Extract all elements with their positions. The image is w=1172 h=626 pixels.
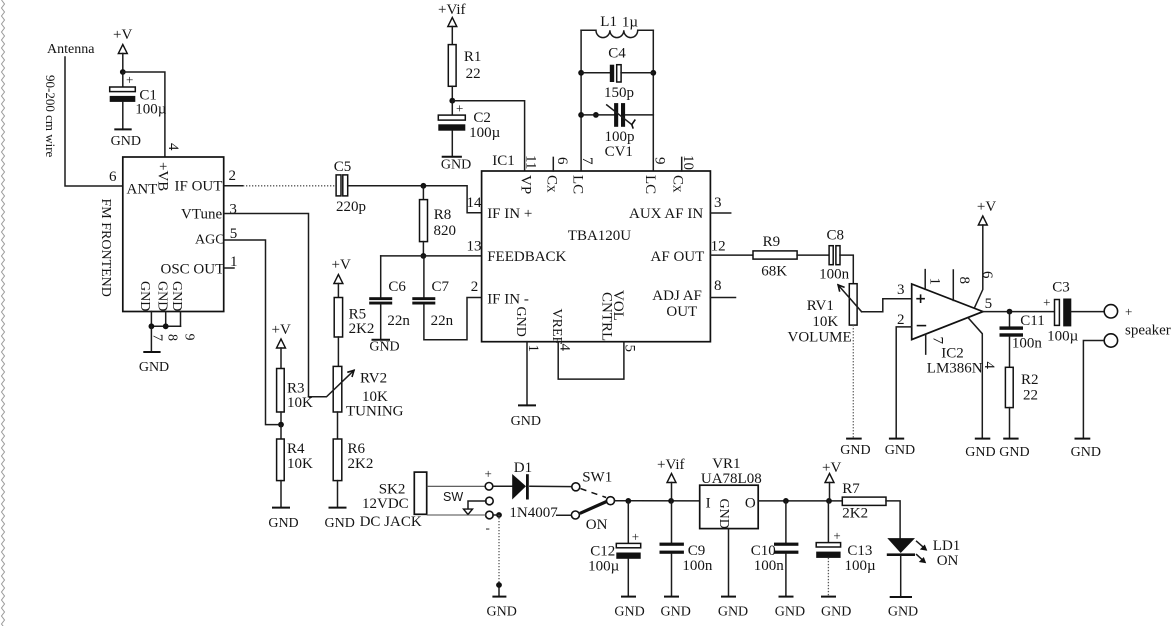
wire junction to +VB pin (123, 72, 165, 157)
svg-text:2K2: 2K2 (348, 456, 374, 472)
svg-text:6: 6 (979, 271, 995, 279)
pin 8 stub (710, 297, 735, 299)
SW contact arrow (464, 509, 473, 514)
svg-text:12: 12 (711, 239, 726, 255)
svg-text:C3: C3 (1052, 280, 1070, 296)
svg-text:UA78L08: UA78L08 (701, 471, 762, 487)
switch SW1 (557, 470, 615, 534)
svg-text:+: + (456, 101, 463, 116)
svg-text:C12: C12 (590, 544, 615, 560)
svg-text:+V: +V (272, 322, 291, 338)
svg-text:4: 4 (556, 344, 572, 352)
svg-text:VREF: VREF (549, 309, 564, 345)
capacitor C7 22n (412, 279, 453, 329)
svg-text:13: 13 (467, 239, 482, 255)
svg-text:GND: GND (661, 605, 691, 620)
jack terminal plus (485, 483, 493, 491)
svg-text:GND: GND (716, 499, 731, 529)
svg-text:ANT: ANT (127, 182, 158, 198)
capacitor C3 100u (1043, 280, 1079, 345)
IC FM FRONTEND module (98, 157, 225, 312)
svg-text:6: 6 (109, 169, 117, 185)
svg-text:2: 2 (229, 168, 237, 184)
svg-text:RV2: RV2 (360, 371, 387, 387)
svg-text:LM386N: LM386N (927, 361, 983, 377)
wire RV1 wiper to pin 3 (862, 299, 912, 312)
jack terminal minus (486, 511, 494, 519)
ground (R6) (325, 481, 355, 531)
ground (SK2) (487, 597, 517, 620)
wire VTune to RV2 wiper (224, 214, 309, 397)
wire tank right (652, 30, 654, 171)
capacitor C4 150p (581, 46, 653, 102)
svg-text:1N4007: 1N4007 (509, 505, 558, 521)
svg-text:100µ: 100µ (135, 102, 167, 118)
svg-text:IF IN +: IF IN + (487, 206, 532, 222)
ground (C1) (111, 129, 141, 149)
wire C7 to IF IN- pin (424, 298, 482, 340)
svg-text:IF IN -: IF IN - (487, 292, 529, 308)
wire RV1 bottom to ground (852, 325, 854, 439)
svg-text:LC: LC (642, 175, 658, 194)
capacitor C11 100n (1000, 312, 1045, 352)
capacitor C12 100u (588, 501, 641, 575)
svg-text:8: 8 (956, 277, 972, 285)
svg-text:+V: +V (332, 257, 351, 273)
svg-text:+: + (1043, 295, 1050, 310)
wire pin 2 to ground (896, 327, 912, 439)
svg-text:CNTRL: CNTRL (599, 292, 615, 341)
wire speaker return (1083, 341, 1104, 439)
resistor R5 2K2 (334, 298, 374, 338)
wire C11 to R2 (1009, 337, 1011, 368)
node C4 right (650, 70, 656, 76)
svg-text:VOLUME: VOLUME (788, 330, 852, 346)
svg-text:GND: GND (154, 281, 169, 311)
svg-text:+V: +V (113, 27, 132, 43)
resistor R8 820 (420, 186, 457, 256)
svg-text:R2: R2 (1021, 372, 1039, 388)
svg-text:AF OUT: AF OUT (651, 249, 705, 265)
svg-text:10K: 10K (812, 314, 838, 330)
potentiometer RV2 10K TUNING (309, 366, 404, 419)
node +V / C13 (826, 498, 832, 504)
node ground stem (496, 582, 502, 588)
pin 1 stub (924, 270, 926, 290)
svg-text:+: + (1125, 304, 1132, 319)
svg-text:+: + (632, 529, 639, 544)
svg-text:AGC: AGC (195, 233, 225, 248)
svg-text:8: 8 (164, 334, 179, 341)
node +V/C1 junction (120, 69, 126, 75)
wire C3 to speaker (1071, 311, 1104, 313)
svg-text:2K2: 2K2 (842, 506, 868, 522)
node jack minus (496, 512, 502, 518)
svg-text:5: 5 (622, 345, 638, 353)
capacitor C9 100n (660, 501, 713, 574)
svg-text:GND: GND (511, 414, 541, 429)
svg-text:4: 4 (981, 362, 997, 370)
wire minus to ground (493, 514, 499, 516)
capacitor C5 220p (334, 159, 366, 215)
svg-text:7: 7 (579, 157, 595, 165)
svg-text:3: 3 (229, 202, 237, 218)
wire SW contact (468, 501, 486, 509)
svg-text:OSC OUT: OSC OUT (161, 262, 225, 278)
svg-text:100n: 100n (1012, 336, 1043, 352)
resistor R9 68K (753, 234, 797, 280)
svg-text:2K2: 2K2 (349, 321, 375, 337)
svg-text:GND: GND (369, 340, 399, 355)
svg-text:+: + (485, 466, 492, 481)
svg-text:C4: C4 (608, 46, 626, 62)
pin 8 stub (952, 270, 954, 300)
trimmer capacitor CV1 100p (581, 103, 653, 160)
capacitor C13 100u (816, 501, 876, 574)
svg-text:+: + (126, 72, 133, 87)
pin 1 GND wire (526, 342, 528, 406)
svg-text:R6: R6 (348, 441, 366, 457)
svg-text:11: 11 (523, 155, 539, 169)
capacitor C1 100u (110, 72, 167, 129)
wire jack minus (427, 514, 486, 516)
svg-text:GND: GND (139, 360, 169, 375)
ground (C12) (614, 559, 644, 620)
svg-text:GND: GND (487, 605, 517, 620)
svg-text:GND: GND (718, 605, 748, 620)
wire R3 to junction (280, 412, 282, 425)
svg-text:Cx: Cx (669, 175, 685, 193)
svg-text:+V: +V (822, 460, 841, 476)
svg-text:2: 2 (897, 312, 905, 328)
ground (LD1) (888, 556, 918, 620)
svg-text:3: 3 (897, 282, 905, 298)
svg-text:RV1: RV1 (807, 298, 834, 314)
node R3/R4 junction (278, 422, 284, 428)
svg-text:LC: LC (569, 175, 585, 194)
svg-text:CV1: CV1 (605, 144, 633, 160)
page edge hatch strip (2, 0, 5, 626)
inductor L1 1u (581, 14, 653, 38)
ground (RV1) (840, 439, 870, 458)
power flag +V (R5) (332, 257, 351, 298)
svg-text:100µ: 100µ (845, 558, 877, 574)
svg-text:TBA120U: TBA120U (568, 228, 632, 244)
svg-text:R9: R9 (763, 234, 781, 250)
svg-text:100n: 100n (754, 558, 785, 574)
wire feedback to C6 (380, 256, 382, 297)
ground (IC1 pin1) (511, 405, 541, 429)
resistor R4 10K (277, 425, 313, 481)
svg-text:GND: GND (137, 281, 152, 311)
svg-text:-: - (486, 520, 490, 535)
svg-text:GND: GND (111, 134, 141, 149)
svg-text:C11: C11 (1020, 313, 1044, 329)
power flag +Vif (R1) (438, 2, 466, 45)
svg-text:R7: R7 (842, 481, 860, 497)
svg-text:8: 8 (714, 278, 722, 294)
svg-text:R8: R8 (434, 207, 452, 223)
wire C5 to pin14 elbow (348, 186, 482, 213)
svg-text:9: 9 (182, 334, 197, 341)
wire jack plus (427, 485, 485, 487)
svg-text:C13: C13 (847, 543, 872, 559)
svg-text:90-200 cm wire: 90-200 cm wire (43, 75, 58, 158)
wire feedback line (381, 255, 482, 257)
svg-text:SW1: SW1 (582, 470, 612, 486)
svg-text:FEEDBACK: FEEDBACK (487, 249, 566, 265)
wire tank left (580, 30, 582, 171)
svg-text:GND: GND (325, 516, 355, 531)
diode D1 1N4007 (493, 460, 572, 521)
svg-text:R4: R4 (287, 441, 305, 457)
svg-text:IC2: IC2 (941, 346, 964, 362)
svg-text:Cx: Cx (543, 175, 559, 193)
speaker terminal + (1104, 305, 1117, 318)
svg-text:ADJ AF: ADJ AF (652, 288, 702, 304)
ground (C10) (775, 554, 805, 620)
resistor R1 22 (448, 45, 481, 87)
svg-text:220p: 220p (336, 199, 366, 215)
svg-text:2: 2 (471, 279, 479, 295)
ground (IC2 pin 4) (965, 439, 995, 460)
svg-text:GND: GND (840, 443, 870, 458)
wire RV2 to R6 (337, 412, 339, 439)
node R8 bottom / feedback (421, 253, 427, 259)
node C4 left (578, 70, 584, 76)
svg-text:C6: C6 (388, 279, 406, 295)
svg-text:VTune: VTune (181, 207, 222, 223)
wire AF OUT to R9 (710, 254, 753, 256)
resistor R2 22 (1005, 367, 1038, 407)
jack switch terminal (486, 497, 494, 505)
svg-text:C10: C10 (751, 543, 776, 559)
ground (VR1) (718, 597, 748, 620)
ground (IC2 pin 2) (885, 439, 915, 458)
svg-text:7: 7 (929, 337, 945, 345)
svg-text:22: 22 (466, 66, 481, 82)
wire VR1 out rail (758, 500, 842, 502)
capacitor C10 100n (751, 501, 799, 574)
power flag +V (R3) (272, 322, 291, 369)
svg-text:SW: SW (443, 490, 463, 504)
svg-text:22n: 22n (431, 313, 454, 329)
wire switch to rail (615, 500, 700, 502)
svg-text:speaker: speaker (1125, 323, 1171, 339)
ground (C9) (661, 554, 691, 620)
svg-text:IF OUT: IF OUT (175, 179, 223, 195)
capacitor C8 100n (819, 228, 850, 283)
regulator VR1 UA78L08 (700, 456, 762, 529)
node +Vif / C9 (668, 498, 674, 504)
svg-text:1µ: 1µ (622, 15, 639, 31)
svg-text:C8: C8 (827, 228, 845, 244)
svg-text:C7: C7 (432, 279, 450, 295)
svg-text:820: 820 (434, 223, 457, 239)
node C10 (783, 498, 789, 504)
svg-text:150p: 150p (604, 85, 634, 101)
ground (R4) (268, 481, 298, 531)
wire C8 to RV1 top (840, 255, 853, 284)
LED LD1 (887, 538, 961, 569)
power flag +V (C1) (113, 27, 132, 72)
svg-text:GND: GND (821, 605, 851, 620)
pin 10 stub (681, 157, 683, 171)
svg-text:22n: 22n (387, 313, 410, 329)
svg-text:OUT: OUT (666, 304, 697, 320)
svg-text:GND: GND (268, 516, 298, 531)
svg-text:GND: GND (999, 445, 1029, 460)
node R1/C2 (449, 98, 455, 104)
op-amp IC2 LM386N (912, 284, 983, 377)
svg-text:100n: 100n (819, 267, 850, 283)
wire antenna to ANT pin (65, 57, 123, 186)
wire IF OUT to C5 (224, 185, 243, 187)
wire OSC OUT stub (224, 267, 234, 269)
svg-text:ON: ON (937, 553, 959, 569)
ground (C6) (369, 305, 399, 355)
svg-text:100µ: 100µ (469, 125, 501, 141)
resistor R3 10K (277, 369, 313, 413)
svg-text:9: 9 (652, 157, 668, 165)
svg-text:TUNING: TUNING (346, 404, 404, 420)
wire VR1 gnd pin (728, 529, 730, 597)
svg-text:IC1: IC1 (492, 153, 515, 169)
svg-text:22: 22 (1023, 388, 1038, 404)
svg-text:+VB: +VB (155, 162, 171, 191)
node CV1 left (578, 112, 584, 118)
svg-text:3: 3 (714, 195, 722, 211)
node R8 top (421, 183, 427, 189)
svg-text:GND: GND (888, 605, 918, 620)
svg-text:10K: 10K (287, 456, 313, 472)
svg-text:+V: +V (977, 199, 996, 215)
svg-text:DC JACK: DC JACK (360, 514, 422, 530)
svg-text:+Vif: +Vif (438, 2, 466, 18)
svg-text:GND: GND (1071, 445, 1101, 460)
svg-text:100n: 100n (682, 558, 713, 574)
svg-text:68K: 68K (761, 264, 787, 280)
svg-text:100p: 100p (605, 129, 635, 145)
svg-text:I: I (706, 496, 711, 512)
ground (R2) (999, 408, 1029, 460)
svg-text:+: + (833, 528, 840, 543)
speaker terminal - (1104, 334, 1117, 347)
svg-text:GND: GND (441, 158, 471, 173)
svg-text:VR1: VR1 (712, 456, 740, 472)
node C12 (625, 498, 631, 504)
svg-text:FM FRONTEND: FM FRONTEND (98, 199, 113, 297)
svg-text:GND: GND (513, 307, 528, 337)
power flag +V (rail) (822, 460, 841, 501)
svg-text:AUX AF IN: AUX AF IN (629, 206, 703, 222)
wire node to VP pin 11 (452, 101, 524, 171)
wire VREF to VOL CNTRL (558, 342, 624, 379)
wire AGC down (224, 240, 281, 425)
svg-text:GND: GND (169, 281, 184, 311)
svg-text:5: 5 (985, 296, 993, 312)
svg-text:C9: C9 (688, 543, 706, 559)
svg-text:L1: L1 (600, 14, 617, 30)
wire R9 to C8 (797, 254, 829, 256)
svg-text:GND: GND (965, 445, 995, 460)
ground (C13) (821, 558, 851, 620)
svg-text:VP: VP (518, 175, 534, 194)
wire output (983, 311, 1055, 313)
pin 3 stub (710, 212, 730, 214)
ground (C2) (441, 157, 471, 173)
wire R5 to RV2 (337, 337, 339, 366)
svg-text:14: 14 (467, 195, 483, 211)
capacitor C6 22n (369, 279, 410, 329)
svg-text:GND: GND (614, 605, 644, 620)
svg-text:LD1: LD1 (933, 538, 961, 554)
pin 7 stub (925, 334, 927, 354)
svg-text:Antenna: Antenna (47, 42, 95, 57)
svg-text:D1: D1 (514, 460, 532, 476)
svg-text:ON: ON (586, 517, 608, 533)
svg-text:10: 10 (680, 155, 696, 170)
op-amp IC1 TBA120U body (482, 171, 711, 345)
ground (speaker) (1071, 439, 1101, 460)
wire pin 4 to ground (969, 318, 983, 438)
resistor R6 2K2 (333, 439, 373, 481)
node CV1 inner (593, 112, 599, 118)
svg-text:100µ: 100µ (588, 559, 620, 575)
pin 6 stub (552, 157, 554, 171)
resistor R7 2K2 (842, 481, 886, 522)
svg-text:GND: GND (775, 605, 805, 620)
svg-text:6: 6 (554, 157, 570, 165)
svg-text:+Vif: +Vif (657, 457, 685, 473)
svg-text:C5: C5 (334, 159, 352, 175)
svg-text:R1: R1 (464, 49, 482, 65)
wire R1 to node (451, 86, 453, 100)
svg-text:O: O (745, 496, 756, 512)
power flag +Vif (rail) (657, 457, 685, 501)
svg-text:1: 1 (927, 278, 943, 286)
ground (FM frontend) (139, 326, 169, 375)
capacitor C2 100u (438, 101, 500, 157)
svg-text:12VDC: 12VDC (362, 496, 409, 512)
wire +V to pin 6 (975, 225, 983, 307)
power flag +V (IC2) (977, 199, 996, 225)
svg-text:C2: C2 (473, 110, 491, 126)
potentiometer RV1 10K VOLUME (788, 284, 862, 346)
svg-text:100µ: 100µ (1047, 329, 1079, 345)
svg-text:1: 1 (525, 345, 541, 353)
wire R7 to LED (886, 501, 900, 538)
FM frontend ground pins 7 8 9 (149, 312, 197, 342)
node output (1007, 309, 1013, 315)
wire R8 bottom to C7 (423, 256, 425, 297)
svg-text:4: 4 (165, 143, 181, 151)
svg-text:GND: GND (885, 443, 915, 458)
connector SK2 12VDC DC JACK (360, 472, 427, 530)
